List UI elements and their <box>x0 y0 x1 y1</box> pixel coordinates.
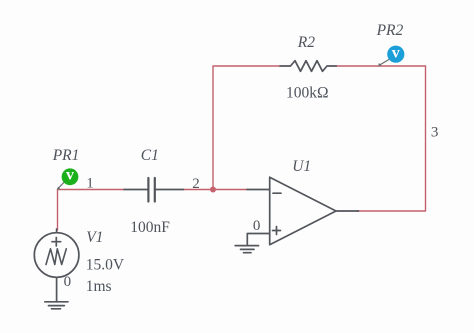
op-amp U1 <box>247 177 359 245</box>
svg-text:v: v <box>66 167 74 184</box>
svg-text:R2: R2 <box>297 34 315 51</box>
svg-text:100nF: 100nF <box>130 219 170 236</box>
node junction at node 2 <box>210 187 216 193</box>
wire net1: V1 top to C1 left <box>58 190 125 231</box>
svg-text:PR2: PR2 <box>376 22 404 39</box>
pin: output <box>336 210 359 212</box>
wire net2: C1 right to U1 minus input <box>184 189 248 191</box>
svg-text:15.0V: 15.0V <box>86 257 125 274</box>
svg-text:V1: V1 <box>86 229 103 246</box>
svg-text:U1: U1 <box>292 158 311 175</box>
probe PR1 <box>62 168 79 185</box>
probe PR1 pointer <box>58 182 65 189</box>
svg-text:100kΩ: 100kΩ <box>286 84 329 101</box>
svg-text:2: 2 <box>192 176 200 192</box>
minus symbol <box>273 192 281 194</box>
svg-text:0: 0 <box>253 218 261 234</box>
svg-text:PR1: PR1 <box>52 147 80 164</box>
probe PR2 <box>387 46 404 63</box>
plus sign <box>52 238 61 247</box>
svg-text:C1: C1 <box>141 147 159 164</box>
capacitor C1 <box>124 178 184 202</box>
pin top <box>56 229 58 233</box>
resistor R2 <box>280 61 336 72</box>
pin: non-inverting input <box>247 234 269 246</box>
svg-text:v: v <box>392 44 400 61</box>
svg-text:1: 1 <box>86 175 94 191</box>
probe PR2 pointer <box>379 60 388 66</box>
svg-text:3: 3 <box>431 124 439 140</box>
svg-text:0: 0 <box>64 274 72 290</box>
voltage source V1 (triangle wave) <box>34 229 79 302</box>
pin: inverting input <box>247 189 270 191</box>
ground at V1 <box>45 302 68 309</box>
wire net3: R2 right, down right side, to U1 output <box>336 66 425 211</box>
svg-text:1ms: 1ms <box>86 278 112 295</box>
pin bottom <box>56 277 58 302</box>
plus symbol <box>273 227 281 235</box>
triangle waveform glyph <box>46 249 66 265</box>
wire net2: junction up to R2 left <box>213 66 280 190</box>
ground at U1 non-inverting input <box>235 246 258 253</box>
